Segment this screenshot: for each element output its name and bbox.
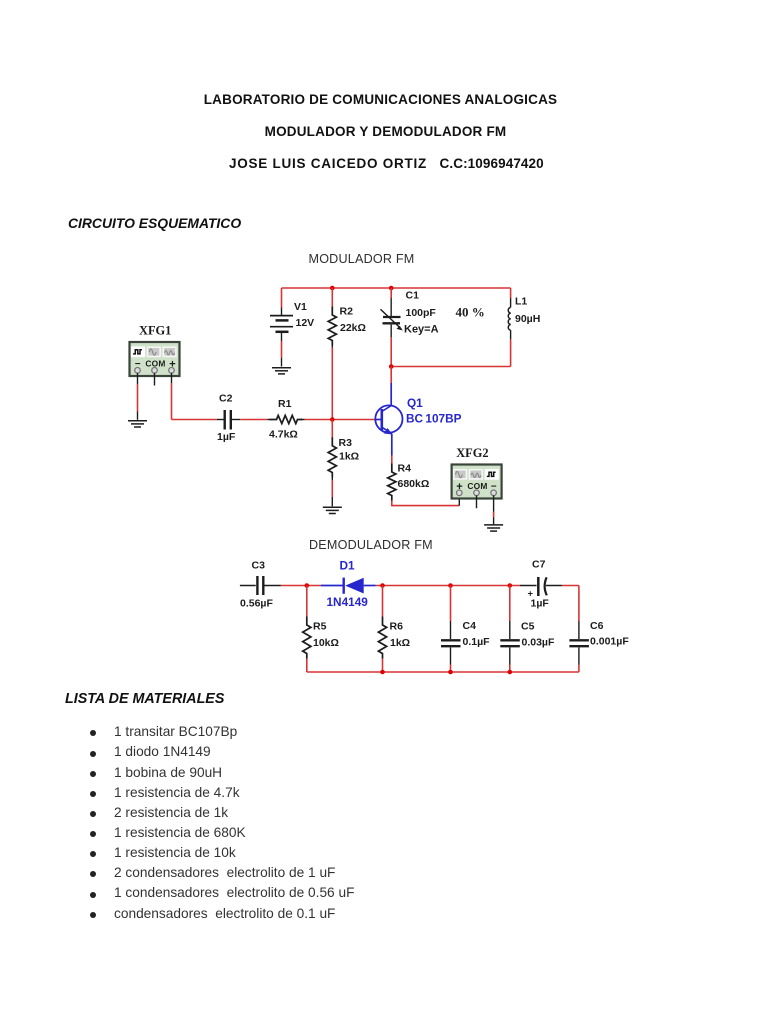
svg-text:C6: C6 <box>590 620 604 632</box>
svg-text:90µH: 90µH <box>515 313 540 325</box>
svg-text:R5: R5 <box>313 620 327 632</box>
svg-text:1kΩ: 1kΩ <box>390 637 410 649</box>
node: top rail / R5 <box>305 583 310 588</box>
capacitor C5 <box>500 586 520 673</box>
resistor R3 <box>328 420 336 507</box>
node: bottom rail / C5 <box>508 670 513 675</box>
title line 1 <box>0 92 768 107</box>
svg-text:R3: R3 <box>339 437 353 449</box>
svg-text:C2: C2 <box>219 393 233 405</box>
node: bottom rail / C4 <box>448 670 453 675</box>
wire: XFG2 COM stub <box>476 495 478 508</box>
battery V1 <box>270 288 293 367</box>
wire: tank bottom <box>391 366 510 368</box>
resistor R1 <box>268 415 305 423</box>
wire: top power rail <box>282 287 511 289</box>
resistor R2 <box>328 288 336 420</box>
svg-text:Q1: Q1 <box>407 396 423 410</box>
wire: XFG1 minus pin to ground <box>137 373 139 420</box>
svg-text:0.56µF: 0.56µF <box>240 598 273 610</box>
variable capacitor C1 <box>381 288 403 367</box>
wire: R1 to Q1 base <box>305 419 376 421</box>
resistor R6 <box>378 586 386 673</box>
node: tank bottom / collector junction <box>389 364 394 369</box>
ground for XFG2 <box>484 525 503 531</box>
svg-text:40 %: 40 % <box>456 304 485 319</box>
wire: XFG1 COM stub <box>154 373 156 386</box>
wire: R4 to XFG2 plus pin <box>392 498 460 506</box>
wire: demod bottom rail <box>307 671 579 673</box>
resistor R5 <box>303 586 311 673</box>
svg-text:10kΩ: 10kΩ <box>313 637 339 649</box>
svg-text:22kΩ: 22kΩ <box>340 322 366 334</box>
wire: D1 to C7 <box>376 585 520 587</box>
capacitor C2 <box>217 410 240 430</box>
function generator XFG2 <box>452 465 502 499</box>
node: top rail / C5 <box>508 583 513 588</box>
node: top rail / C4 <box>448 583 453 588</box>
svg-text:C1: C1 <box>406 290 420 302</box>
title line 3 <box>229 156 544 171</box>
svg-text:1N4149: 1N4149 <box>327 595 369 609</box>
svg-text:BC 107BP: BC 107BP <box>406 411 462 425</box>
transistor Q1 <box>375 367 402 464</box>
capacitor C3 <box>240 576 281 595</box>
node: junction top rail / R2 <box>330 286 335 291</box>
schematic section label: modulador fm <box>309 252 415 266</box>
svg-text:C5: C5 <box>521 620 535 632</box>
svg-text:1µF: 1µF <box>217 431 236 443</box>
svg-text:V1: V1 <box>294 301 307 313</box>
svg-text:L1: L1 <box>515 296 527 308</box>
diode D1 <box>321 578 376 594</box>
node: bottom rail / R6 <box>380 670 385 675</box>
svg-text:0.1µF: 0.1µF <box>463 636 491 648</box>
svg-text:C4: C4 <box>463 620 477 632</box>
ground for V1 <box>272 368 291 374</box>
svg-text:Key=A: Key=A <box>404 323 439 335</box>
svg-text:XFG2: XFG2 <box>456 446 488 460</box>
svg-text:C3: C3 <box>252 560 266 572</box>
svg-text:100pF: 100pF <box>406 307 437 319</box>
svg-text:XFG1: XFG1 <box>139 323 171 337</box>
schematic section label: demodulador fm <box>309 538 433 552</box>
node: top rail / R6 <box>380 583 385 588</box>
svg-text:0.03µF: 0.03µF <box>522 636 555 648</box>
wire: XFG2 minus pin to ground <box>493 495 495 524</box>
svg-text:680kΩ: 680kΩ <box>398 478 430 490</box>
svg-text:C7: C7 <box>532 559 546 571</box>
node: base line / R2R3 junction <box>330 417 335 422</box>
capacitor C4 <box>441 586 461 673</box>
capacitor C6 on right branch <box>569 586 589 673</box>
svg-text:COM: COM <box>145 358 165 368</box>
svg-text:4.7kΩ: 4.7kΩ <box>269 429 298 441</box>
svg-text:R2: R2 <box>340 306 354 318</box>
function generator XFG1 <box>130 342 180 376</box>
svg-text:D1: D1 <box>340 558 356 572</box>
svg-text:R6: R6 <box>390 620 404 632</box>
svg-text:0.001µF: 0.001µF <box>590 636 629 648</box>
heading: lista de materiales <box>65 691 224 707</box>
wire: XFG1 plus pin to C2 <box>172 373 217 420</box>
heading: circuito esquematico <box>68 215 241 231</box>
wire: C2 to R1 <box>240 419 267 421</box>
ground for XFG1 <box>128 421 147 427</box>
svg-text:R1: R1 <box>278 398 292 410</box>
wire: C3 to D1 <box>281 585 321 587</box>
resistor R4 <box>388 464 396 507</box>
svg-text:12V: 12V <box>296 317 315 329</box>
bill of materials list <box>0 725 1 727</box>
capacitor C7 (polarized) <box>520 577 579 596</box>
svg-text:1kΩ: 1kΩ <box>339 451 359 463</box>
node: junction top rail / C1 tank <box>389 286 394 291</box>
title line 2 <box>0 124 768 139</box>
ground for R3 <box>323 507 342 513</box>
inductor L1 <box>508 288 510 367</box>
svg-text:R4: R4 <box>398 462 412 474</box>
svg-text:1µF: 1µF <box>531 598 550 610</box>
